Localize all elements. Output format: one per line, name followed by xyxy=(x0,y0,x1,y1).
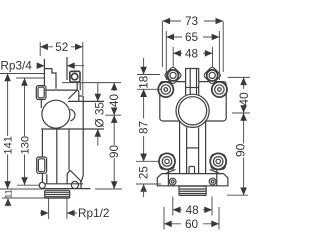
svg-text:48: 48 xyxy=(186,203,200,217)
svg-text:65: 65 xyxy=(185,30,199,44)
svg-text:141: 141 xyxy=(2,136,14,155)
svg-text:11: 11 xyxy=(3,189,13,198)
svg-text:18: 18 xyxy=(137,76,150,89)
svg-text:Rp1/2: Rp1/2 xyxy=(78,206,109,220)
svg-text:Ø 35: Ø 35 xyxy=(94,102,107,128)
svg-text:40: 40 xyxy=(108,94,121,108)
svg-text:130: 130 xyxy=(19,136,31,155)
svg-text:40: 40 xyxy=(237,92,250,106)
svg-text:Rp3/4: Rp3/4 xyxy=(0,58,32,72)
svg-text:60: 60 xyxy=(185,217,199,231)
svg-text:48: 48 xyxy=(185,47,199,61)
svg-text:52: 52 xyxy=(55,40,68,54)
svg-text:87: 87 xyxy=(137,121,150,134)
svg-text:25: 25 xyxy=(137,166,150,180)
svg-text:90: 90 xyxy=(234,143,248,157)
svg-text:90: 90 xyxy=(108,145,121,159)
svg-text:73: 73 xyxy=(185,14,199,28)
